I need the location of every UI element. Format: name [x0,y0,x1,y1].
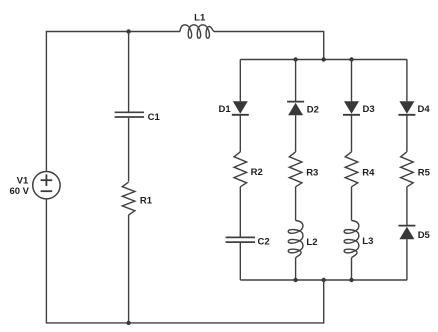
wire R1 to bottom rail [128,215,130,323]
wire branch4 bus to D4 [406,60,408,102]
wire C2 to bottom bus [239,243,241,280]
svg-text:R3: R3 [306,167,318,178]
resistor R3 [289,152,302,187]
label C1 [148,112,161,123]
wire R4 to L3 [351,187,353,221]
wire return from bottom bus to bottom rail [46,199,323,323]
label C2 [258,236,270,247]
node bottom bus / return wire [322,278,326,282]
wire from L1 right down to top bus [214,32,324,60]
wire branch2 bus to D2 [295,60,297,102]
wire D1 to R2 [239,115,241,152]
label R5 [418,167,431,178]
svg-text:R1: R1 [140,195,153,206]
svg-text:D1: D1 [219,104,232,115]
svg-text:D5: D5 [418,230,431,241]
node top bus / branch2 [293,57,297,61]
label D5 [418,230,431,241]
capacitor C2 [226,237,255,242]
label R3 [306,167,318,178]
wire L3 to bottom bus [351,258,353,280]
svg-text:R2: R2 [251,167,263,178]
diode D5 [398,226,415,240]
wire L2 to bottom bus [295,258,297,280]
svg-text:L3: L3 [362,236,373,247]
svg-text:L1: L1 [194,13,206,24]
wire D2 to R3 [295,115,297,152]
wire branch1 bus to D1 [239,60,241,102]
node junction top wire / C1 branch [126,29,130,33]
resistor R1 [122,182,135,215]
capacitor C1 [115,112,144,117]
wire D5 to bottom bus [406,239,408,280]
node bottom bus / branch2 [293,278,297,282]
node bottom bus / branch3 [349,278,353,282]
svg-text:R4: R4 [362,167,375,178]
diode D4 [398,101,415,115]
wire D4 to R5 [406,115,408,152]
label D2 [307,104,319,115]
label L3 [362,236,373,247]
label V1 [17,176,29,187]
wire top bus of parallel network [240,59,407,61]
resistor R2 [234,152,247,187]
wire R5 to D5 [406,187,408,226]
label L1 [194,13,206,24]
label 60 V [9,186,29,197]
svg-text:60 V: 60 V [9,186,29,197]
resistor R5 [401,152,414,187]
wire R3 to L2 [295,187,297,221]
diode D3 [343,101,360,115]
wire branch3 bus to D3 [351,60,353,102]
svg-text:C2: C2 [258,236,270,247]
diode D2 [287,102,304,116]
resistor R4 [345,152,358,187]
label D4 [418,104,431,115]
label D1 [219,104,232,115]
svg-text:D2: D2 [307,104,319,115]
wire left vertical from V1 top to top-left corner and across to L1 [46,32,180,172]
node top bus / feed wire [322,57,326,61]
svg-text:R5: R5 [418,167,431,178]
label R1 [140,195,153,206]
node top bus / branch3 [349,57,353,61]
voltage source V1 [33,172,60,199]
wire R2 to C2 [239,187,241,237]
label R2 [251,167,263,178]
svg-text:C1: C1 [148,112,161,123]
inductor L1 [180,25,214,38]
svg-text:L2: L2 [306,237,317,248]
wire D3 to R4 [351,115,353,152]
svg-text:D3: D3 [363,104,375,115]
label R4 [362,167,375,178]
inductor L3 [344,221,359,258]
wire bottom bus of parallel network [240,279,407,281]
wire middle branch top to C1 [128,32,130,112]
node bottom rail / R1 branch [126,321,130,325]
inductor L2 [288,221,303,258]
label L2 [306,237,317,248]
diode D1 [232,101,249,115]
svg-text:D4: D4 [418,104,431,115]
label D3 [363,104,375,115]
wire C1 to R1 [128,118,130,182]
